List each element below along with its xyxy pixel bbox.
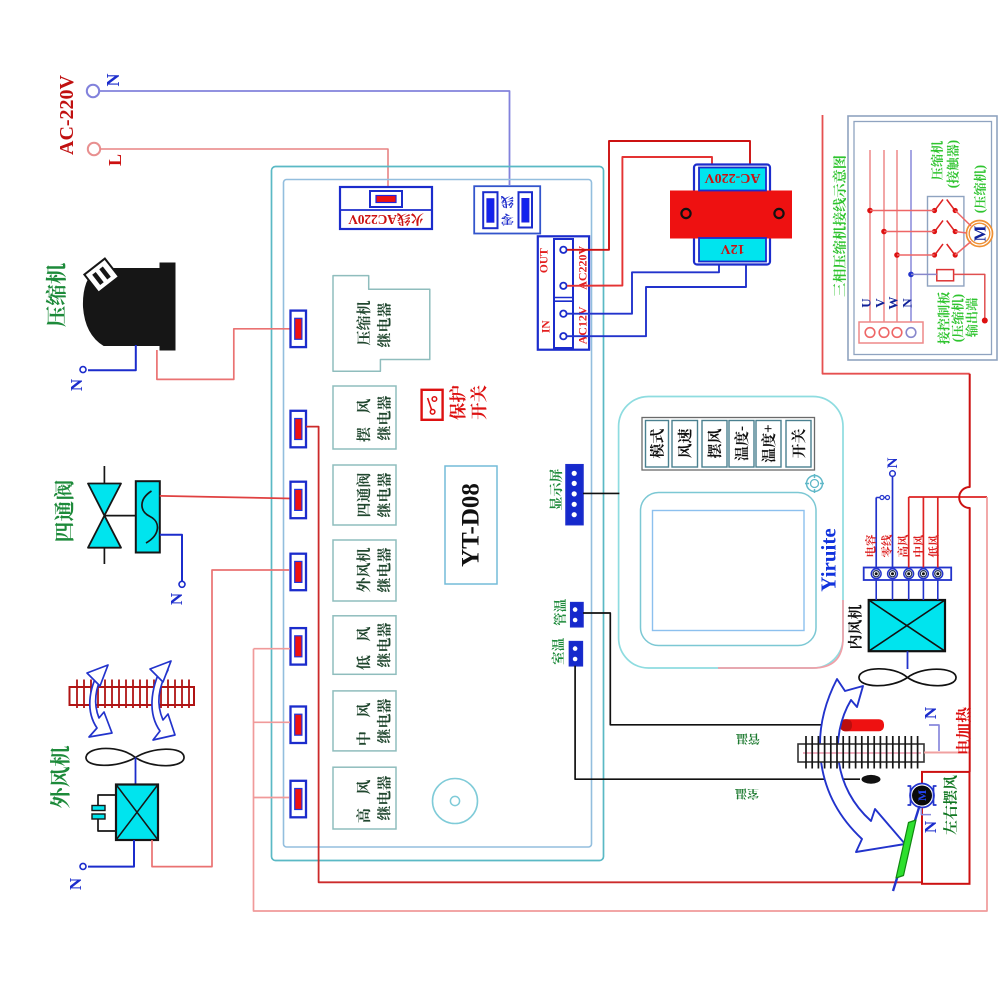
- relay plug K7: [291, 781, 307, 818]
- remote button 摆风: [702, 421, 727, 468]
- contactor pole 1: [932, 208, 937, 213]
- wire low fan tap: [254, 648, 291, 650]
- remote screen frame: [641, 493, 817, 646]
- svg-text:AC220V: AC220V: [575, 245, 589, 289]
- svg-text:IN: IN: [540, 320, 552, 333]
- wire capacitor lead: [875, 498, 877, 568]
- wire feed to three-phase diagram: [823, 115, 970, 374]
- four-way valve solenoid coil: [136, 481, 160, 552]
- transformer T1 body: [694, 165, 770, 265]
- label three-phase diagram title: [833, 156, 846, 297]
- indoor fan motor box: [869, 600, 945, 651]
- wire compressor neutral: [88, 345, 136, 370]
- label display: [549, 469, 562, 510]
- connector pipe temp socket: [571, 603, 583, 627]
- wire W to contactor: [897, 254, 935, 256]
- swing motor bracket left: [908, 786, 911, 805]
- phase line U: [869, 150, 871, 331]
- relay box four-way valve relay: [333, 465, 396, 525]
- airflow arrow left of condenser: [89, 669, 112, 737]
- remote button 开关: [786, 421, 811, 468]
- wire low speed lead: [937, 497, 939, 568]
- terminal hole OUT-L: [560, 247, 566, 253]
- label pipe temp sensor tag: [736, 734, 760, 745]
- contactor pole 3: [932, 252, 937, 257]
- svg-text:N: N: [921, 706, 940, 719]
- node N outdoor fan terminal: [80, 863, 86, 869]
- svg-text:AC12V: AC12V: [575, 306, 589, 344]
- node N valve terminal: [179, 581, 185, 587]
- svg-text:): ): [972, 165, 987, 169]
- remote IR receiver circle: [807, 476, 823, 492]
- svg-text:Yiruite: Yiruite: [817, 528, 841, 591]
- wire live feed right side with hop: [959, 374, 969, 772]
- relay box outdoor fan relay: [333, 540, 396, 601]
- wire contactor to motor 2: [955, 232, 966, 234]
- wire fan speed bus loop: [254, 497, 988, 911]
- wire compressor live to relay plug: [157, 329, 291, 380]
- label room temp sensor tag: [735, 789, 758, 800]
- transformer mount hole left: [681, 209, 690, 218]
- label live AC220V: [348, 212, 424, 227]
- svg-text:+: +: [761, 424, 777, 433]
- label compressor paren: [972, 165, 987, 213]
- svg-text:N: N: [67, 378, 86, 391]
- wire fan speed bus: [909, 496, 987, 498]
- control board inner border: [284, 180, 592, 848]
- remote control body: [619, 397, 843, 669]
- label mid speed: [913, 535, 924, 557]
- compressor motor body: [84, 269, 160, 345]
- swing vane shaft: [893, 806, 920, 891]
- condenser coil body: [70, 687, 195, 705]
- label to control board output: [937, 292, 949, 344]
- relay box high fan relay: [333, 767, 396, 829]
- outdoor fan shaft: [135, 758, 137, 785]
- junction dot W: [894, 252, 900, 258]
- wire room temp sensor: [575, 666, 860, 779]
- indoor fan terminal strip: [864, 568, 952, 581]
- label neutral lead: [881, 535, 892, 557]
- three-phase diagram inner frame: [854, 122, 992, 355]
- terminal hole IN-1: [560, 311, 566, 317]
- wire N to contactor coil: [911, 273, 937, 275]
- svg-text:AC-220V: AC-220V: [705, 170, 761, 185]
- label room temp: [552, 638, 565, 664]
- terminal hole OUT-N: [560, 283, 566, 289]
- transformer mount hole right: [774, 209, 783, 218]
- relay box compressor relay: [333, 276, 430, 372]
- connector room temp socket: [569, 642, 582, 666]
- wire indoor fan neutral lead: [892, 476, 894, 568]
- label swing left-right: [943, 775, 957, 834]
- wire high speed lead: [908, 497, 910, 568]
- label indoor fan: [848, 605, 862, 648]
- svg-text:YT-D08: YT-D08: [458, 483, 485, 567]
- contactor coil box: [937, 270, 954, 281]
- label pipe temp: [553, 599, 566, 625]
- svg-text:(: (: [950, 338, 965, 342]
- connector display socket: [566, 465, 583, 525]
- plug neutral pin B: [519, 192, 533, 227]
- wire outdoor fan neutral: [88, 840, 134, 867]
- relay plug K2: [291, 411, 307, 448]
- indoor fan terminal: [888, 569, 898, 579]
- wire contactor to motor 1: [955, 211, 971, 227]
- transformer primary winding box AC-220V: [699, 168, 766, 191]
- pipe temp sensor probe: [840, 719, 884, 731]
- svg-text:(: (: [972, 209, 987, 213]
- buzzer: [433, 779, 478, 824]
- svg-text:N: N: [167, 592, 186, 605]
- indoor fan shaft: [907, 651, 909, 669]
- remote button 风速: [672, 421, 698, 468]
- wire display to remote: [583, 492, 619, 494]
- connector neutral box: [474, 186, 540, 233]
- remote bottom-right pink arc: [718, 600, 843, 668]
- protection switch symbol: [422, 390, 443, 420]
- svg-text:N: N: [921, 820, 940, 833]
- relay box mid fan relay: [333, 691, 396, 751]
- relay plug K4: [291, 554, 307, 591]
- four-way valve stem: [103, 466, 105, 564]
- phase line W: [896, 150, 898, 331]
- indoor fan terminal: [919, 569, 929, 579]
- four-way valve bowtie: [88, 484, 121, 516]
- remote button 模式: [646, 421, 669, 468]
- label four-way valve: [54, 480, 74, 540]
- terminal hole IN-2: [560, 333, 566, 339]
- wire heater neutral: [929, 725, 939, 751]
- wire high fan tap: [254, 797, 290, 799]
- svg-text:U: U: [858, 298, 873, 308]
- compressor plug prongs: [84, 259, 119, 293]
- swing motor bracket right: [934, 786, 937, 805]
- svg-text:AC-220V: AC-220V: [56, 74, 78, 155]
- indoor fan motor lead stub: [937, 580, 939, 600]
- airflow swoosh arrow: [820, 679, 905, 852]
- wire outdoor fan live to relay plug: [152, 570, 289, 867]
- heater lead to live wire: [924, 752, 970, 754]
- heater element inner wire: [803, 752, 921, 754]
- wire V to contactor: [884, 231, 935, 233]
- node N power terminal: [87, 85, 99, 97]
- svg-text:N: N: [899, 298, 914, 308]
- wire AC12V in 2 from transformer secondary: [567, 264, 746, 336]
- label protection switch: [449, 386, 466, 420]
- airflow arrow right of condenser: [152, 666, 175, 740]
- label electric heater: [956, 707, 971, 753]
- indoor fan motor lead stub: [908, 580, 910, 600]
- svg-text:L: L: [105, 154, 125, 166]
- wire four-way valve live to relay plug: [160, 496, 291, 499]
- three-phase terminal block UVWN: [859, 322, 923, 343]
- condenser coil fins: [76, 680, 78, 709]
- swing motor M: [910, 784, 934, 808]
- node output terminal dot: [982, 318, 988, 324]
- svg-text:N: N: [66, 877, 85, 890]
- swing unit box: [922, 772, 970, 884]
- indoor fan motor lead stub: [922, 580, 924, 600]
- heater element body: [798, 744, 924, 762]
- indoor fan blades: [859, 669, 956, 686]
- wire contactor to motor 3: [955, 242, 971, 256]
- label neutral: [501, 196, 514, 226]
- wire AC220V out 2 to transformer primary: [567, 157, 712, 286]
- svg-text:): ): [950, 294, 965, 298]
- wire N from terminal to neutral box: [99, 91, 510, 185]
- plug neutral pin A: [483, 192, 497, 228]
- contactor pole 2: [932, 229, 937, 234]
- label high speed: [897, 535, 908, 557]
- svg-text:N: N: [885, 457, 901, 468]
- svg-text:OUT: OUT: [539, 248, 551, 273]
- relay plug K3: [291, 482, 307, 519]
- connector live AC220V box: [340, 187, 432, 229]
- svg-text:): ): [945, 140, 960, 144]
- node L power terminal: [88, 143, 100, 155]
- indoor fan terminal: [904, 569, 914, 579]
- wire four-way valve neutral: [160, 535, 182, 581]
- indoor fan motor lead stub: [875, 580, 877, 600]
- junction dot V: [881, 229, 887, 235]
- relay box low fan relay: [333, 616, 396, 675]
- svg-text:W: W: [885, 297, 900, 310]
- svg-text:-: -: [734, 426, 750, 431]
- remote screen: [653, 511, 805, 631]
- label low speed: [928, 535, 939, 558]
- wire N swing motor: [921, 808, 931, 815]
- compressor flange: [160, 263, 175, 350]
- label outdoor fan: [50, 746, 70, 808]
- swing vane louver: [896, 820, 916, 878]
- label capacitor lead: [865, 535, 876, 556]
- node N indoor fan terminal: [890, 471, 896, 477]
- swing motor feed stub: [921, 772, 923, 783]
- motor M three-phase: [967, 221, 993, 247]
- wire L from terminal to live box: [100, 149, 388, 186]
- heater element fins: [805, 736, 807, 769]
- control board outer border: [272, 167, 604, 861]
- terminal strip inner: [554, 239, 573, 348]
- remote button 温度+: [756, 421, 781, 468]
- model label box YT-D08: [445, 466, 497, 584]
- wire U to contactor: [870, 210, 935, 212]
- transformer secondary winding box 12V: [699, 238, 766, 262]
- phase line V: [883, 150, 885, 331]
- relay plug K1: [291, 311, 307, 348]
- relay box swing relay: [333, 386, 396, 449]
- wire swing relay plug to swing motor: [306, 427, 922, 883]
- relay plug K5: [291, 628, 307, 665]
- remote button 温度-: [729, 421, 754, 468]
- outdoor fan motor box: [116, 785, 158, 841]
- wire AC12V in 1 from transformer secondary: [567, 263, 719, 314]
- indoor fan terminal: [933, 569, 943, 579]
- svg-text:12V: 12V: [720, 241, 744, 256]
- label compressor: [46, 263, 66, 326]
- outdoor fan blades: [86, 748, 184, 765]
- plug live pin: [370, 191, 402, 207]
- contactor box: [928, 197, 964, 287]
- arrowhead left condenser: [87, 665, 108, 686]
- capacitor outdoor fan: [98, 795, 116, 806]
- svg-text:AC220V: AC220V: [348, 212, 397, 227]
- phase line N blue: [910, 150, 912, 331]
- wire pipe temp sensor: [583, 613, 841, 725]
- room temp sensor bulb: [862, 775, 881, 784]
- transformer core red body: [670, 191, 792, 239]
- four-way valve link: [104, 515, 135, 517]
- wire AC220V out 1 to transformer primary: [567, 141, 750, 250]
- node N compressor terminal: [80, 367, 86, 373]
- wire coil to output terminal: [954, 274, 985, 318]
- svg-text:N: N: [103, 74, 123, 87]
- svg-text:(: (: [945, 184, 960, 188]
- label compressor contactor: [931, 141, 943, 180]
- arrowhead right condenser: [150, 661, 171, 682]
- svg-text:M: M: [915, 790, 929, 801]
- relay plug K6: [291, 707, 307, 744]
- indoor fan terminal: [871, 569, 881, 579]
- wire mid speed lead: [922, 497, 924, 568]
- remote button row frame: [642, 418, 815, 471]
- indoor fan motor lead stub: [892, 580, 894, 600]
- svg-text:M: M: [970, 225, 989, 241]
- terminal block OUT/IN body: [538, 236, 589, 349]
- junction dot N blue: [908, 272, 914, 278]
- junction dot U: [867, 208, 873, 214]
- three-phase diagram outer frame: [848, 116, 997, 360]
- wire mid fan tap: [254, 721, 291, 723]
